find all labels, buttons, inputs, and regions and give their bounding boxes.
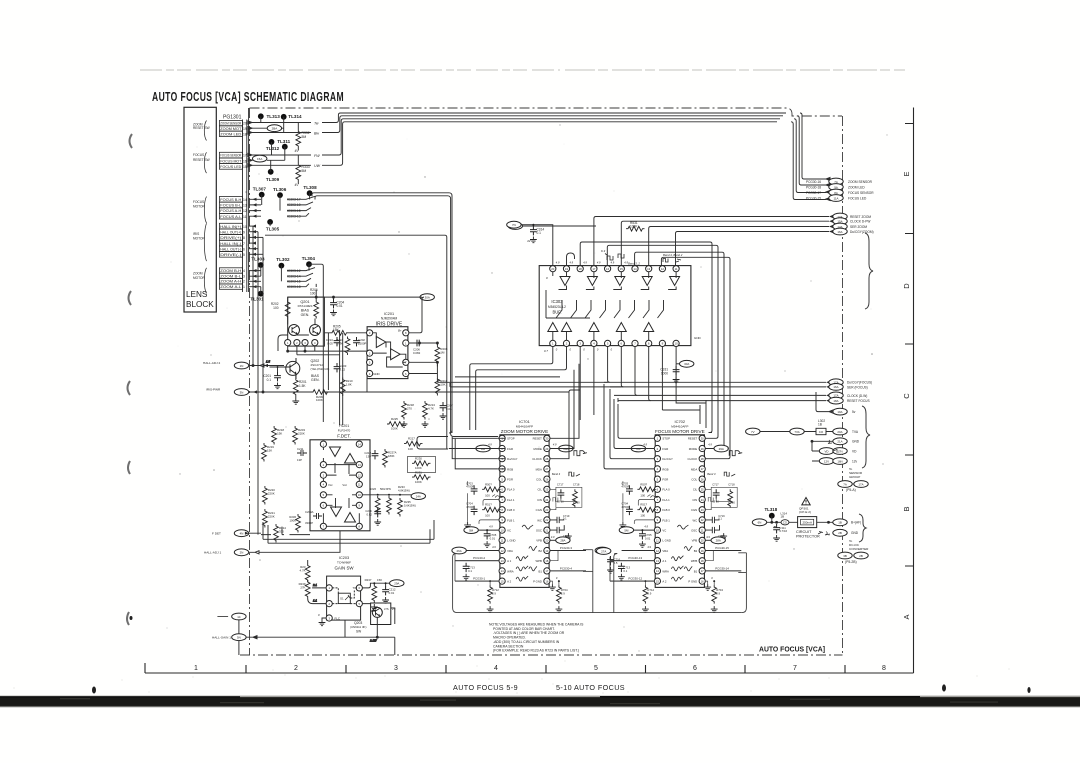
svg-text:19: 19: [565, 267, 569, 271]
svg-text:5M: 5M: [469, 528, 474, 532]
svg-text:Bw: Bw: [314, 131, 319, 135]
svg-text:DTA143ES: DTA143ES: [298, 304, 313, 308]
IC701 pin 17 B1: [538, 568, 550, 574]
svg-text:0.082: 0.082: [413, 351, 421, 355]
connector pin 8A FOCUS SENSOR: [806, 189, 874, 196]
IC303 buffer inverter (down) at 648.7: [642, 277, 652, 286]
IC701 pin 12 VRA: [499, 547, 513, 553]
svg-text:FLB 1: FLB 1: [507, 518, 515, 522]
resistor R214 330: [274, 524, 287, 543]
IC303 pin 6: [618, 340, 624, 346]
wire loop around IC702 bottom: [610, 552, 746, 613]
brace IRIS|MOTOR: [193, 223, 207, 261]
svg-text:26: 26: [701, 477, 704, 481]
wire stubs VD/12V rows: [760, 432, 833, 462]
waveform annotation pin 13 (IC701): [516, 556, 528, 561]
lens signal box HALL IN(-) pin 7: [219, 240, 245, 246]
waveform annotation pin 14 (IC702): [671, 566, 683, 571]
svg-text:1.5K: 1.5K: [299, 384, 306, 388]
IC702 pin 13 A 1: [654, 558, 667, 564]
IC701 pin 8 FLB 0: [499, 507, 515, 513]
lens signal box HALL OUT(-) pin 6: [219, 246, 245, 252]
svg-text:CO: CO: [783, 521, 787, 525]
svg-text:4.9: 4.9: [492, 545, 496, 549]
ground IC702 P GND: [704, 576, 713, 590]
svg-text:IC201: IC201: [384, 312, 394, 316]
svg-text:15: 15: [243, 165, 247, 169]
svg-text:FGR: FGR: [507, 478, 513, 482]
svg-text:ZOOM SENSOR: ZOOM SENSOR: [848, 180, 873, 184]
lens signal box ZOOM B-H pin 4: [219, 268, 245, 273]
node oval 7N SER line: [508, 223, 596, 230]
svg-text:TL306: TL306: [273, 187, 287, 192]
svg-text:AUTO FOCUS 5-9: AUTO FOCUS 5-9: [453, 683, 518, 692]
svg-text:1000: 1000: [661, 371, 668, 375]
svg-text:ZOOM MOT: ZOOM MOT: [220, 127, 241, 131]
svg-text:2.9: 2.9: [716, 591, 720, 595]
svg-text:14: 14: [656, 569, 659, 573]
svg-text:17A: 17A: [858, 482, 863, 486]
wires IC701 control pins up: [449, 364, 580, 469]
svg-text:28: 28: [545, 457, 548, 461]
capacitor C314 0.1: [527, 226, 544, 243]
wire IC701 B1 PCG30-4: [550, 566, 586, 571]
svg-text:WC: WC: [537, 518, 542, 522]
IC702 pin 14 WRA: [654, 568, 669, 574]
IC701 pin 9 FLB 1: [499, 517, 515, 523]
wire ZOOM MOT row: [248, 127, 284, 130]
svg-text:100K: 100K: [316, 398, 323, 402]
svg-text:2B: 2B: [859, 554, 863, 558]
svg-text:M54410AFP: M54410AFP: [671, 425, 688, 429]
svg-text:14: 14: [501, 569, 504, 573]
svg-text:FLB 0: FLB 0: [662, 508, 670, 512]
svg-text:220K: 220K: [268, 491, 275, 495]
IC303 pin 10: [673, 340, 679, 346]
test point TL302: [276, 257, 290, 268]
svg-text:12: 12: [358, 473, 361, 477]
resistor R219 15K: [262, 443, 275, 462]
svg-text:OSC: OSC: [691, 529, 697, 533]
svg-text:ZOOM LED: ZOOM LED: [220, 132, 242, 136]
capacitor C720 3300P (IC702): [705, 525, 727, 541]
FS201 op-amp upper-right: [345, 454, 356, 464]
svg-text:ZOOM SENSOR: ZOOM SENSOR: [220, 122, 242, 126]
connector pin 17A Du/CGY(FOCUS): [829, 379, 872, 386]
wire IC702 WPB stub: [705, 551, 713, 561]
node oval 27A between motor ICs: [597, 548, 611, 555]
svg-text:0.1: 0.1: [537, 231, 542, 235]
svg-text:2N: 2N: [240, 551, 244, 555]
capacitor C207 0.01: [440, 402, 454, 419]
svg-text:30: 30: [701, 437, 704, 441]
node oval 7VA: [790, 428, 804, 435]
connector ovals (P5-2B): [838, 552, 868, 564]
To SENSOR GROUP note: [849, 467, 863, 479]
capacitor C713 0.1 (IC701): [463, 563, 476, 580]
resistor R208 1M: [435, 343, 448, 367]
svg-text:4.9: 4.9: [556, 261, 560, 265]
waveform annotation right pin (IC701) 14: [529, 566, 537, 571]
svg-text:15K: 15K: [333, 328, 340, 332]
svg-text:FOCUS MOT: FOCUS MOT: [220, 159, 241, 163]
svg-text:NJM2904M: NJM2904M: [381, 316, 398, 320]
svg-text:IC303-17: IC303-17: [287, 198, 301, 202]
svg-text:18: 18: [243, 132, 247, 136]
lens signal box FOCUS B-L pin 13: [219, 202, 246, 208]
waveform annotation OSC (IC702): [677, 525, 688, 529]
resistor R707 100 (IC702): [637, 482, 656, 497]
node oval 29A at IC702 MODE: [705, 443, 728, 452]
svg-text:COL: COL: [691, 478, 697, 482]
FS201 pin 13: [356, 462, 362, 468]
svg-text:6.3: 6.3: [601, 249, 606, 253]
svg-text:(FOR EXAMPLE: READ R123 AS R72: (FOR EXAMPLE: READ R123 AS R723 IN PARTS…: [493, 649, 579, 653]
wires IC303 to right vertical bundle: [580, 242, 730, 266]
scan artifact: punch/binding marks left edge: [127, 134, 132, 625]
svg-text:4: 4: [243, 269, 245, 273]
lens signal box DRIVE(+) pin 8: [219, 235, 245, 241]
resistor R704 2.9 (IC701): [556, 580, 569, 612]
svg-text:29A: 29A: [394, 582, 399, 586]
svg-text:25: 25: [701, 488, 704, 492]
IC303 pin 9: [659, 340, 665, 346]
capacitor C705 0.01 (IC702): [639, 530, 652, 547]
IC702 pin 24 CIN: [692, 496, 705, 502]
svg-text:3: 3: [243, 274, 245, 278]
scan noise specks: [14, 124, 1010, 693]
svg-text:4.9: 4.9: [597, 261, 601, 265]
wire hook pin19: [567, 253, 575, 265]
IC701 pin 4 RGB: [499, 466, 513, 472]
svg-text:FGR: FGR: [662, 447, 668, 451]
IC702 pin 10 VC: [654, 527, 666, 533]
IC201 internal wires: [373, 333, 406, 367]
svg-text:16N: 16N: [837, 459, 842, 463]
svg-text:16A: 16A: [837, 230, 842, 234]
svg-text:100: 100: [640, 493, 645, 497]
IC303 pin 20: [550, 266, 556, 272]
resistor R220 220K: [263, 486, 276, 505]
motor driver IC702 M54410AFP FOCUS MOTOR DRIVE: [655, 419, 705, 587]
svg-text:PCG30-12: PCG30-12: [628, 577, 642, 581]
svg-text:0.02: 0.02: [367, 512, 373, 516]
grid frame right border: [905, 108, 914, 674]
svg-text:STOP: STOP: [507, 437, 515, 441]
IC203 switch S1: [332, 586, 357, 603]
svg-text:4.9: 4.9: [624, 261, 628, 265]
test point TL306: [273, 187, 287, 198]
waveform annotation pin 14 (IC701): [516, 566, 528, 571]
test point TL318: [765, 507, 778, 519]
svg-text:4N: 4N: [240, 532, 244, 536]
svg-text:RGB: RGB: [662, 467, 668, 471]
capacitor C713 0.1 (IC702): [618, 563, 631, 580]
svg-text:17: 17: [545, 569, 548, 573]
test point TL307: [253, 186, 267, 197]
svg-text:ZOOM A-H: ZOOM A-H: [220, 280, 242, 284]
capacitor C311 4.7/16: [773, 524, 787, 541]
IC203 pin 3: [326, 615, 332, 621]
lens signal box FOCUS A-L pin 11: [219, 213, 246, 219]
resistor R236 100K: [289, 514, 300, 533]
svg-text:HALL OUT(-): HALL OUT(-): [220, 247, 241, 251]
resistor R225 100K: [387, 417, 406, 431]
wire ZOOM SENSOR row Tw: [248, 113, 830, 181]
IC702 pin 26 COL: [691, 476, 705, 482]
ground left cluster (IC702): [620, 481, 627, 528]
capacitor C717 68 (IC702): [711, 482, 737, 507]
lens signal box ZOOM LED pin 18: [219, 131, 246, 136]
svg-text:TL309: TL309: [266, 177, 280, 182]
resistor R704 2.9 (IC702): [711, 580, 724, 612]
wires left vertical bus extensions: [252, 290, 264, 535]
svg-text:IC303-18: IC303-18: [287, 285, 301, 289]
svg-text:GND: GND: [373, 372, 379, 376]
svg-text:ZOOM: ZOOM: [193, 272, 203, 276]
IC303 pin 16: [605, 266, 611, 272]
Q201 pin 2: [294, 340, 300, 346]
svg-text:FOCUS A-L: FOCUS A-L: [220, 215, 241, 219]
connector pin pair 12V: [819, 458, 857, 465]
svg-text:100: 100: [273, 306, 279, 310]
svg-text:TL313: TL313: [267, 114, 281, 119]
inductor L314: [781, 512, 790, 525]
svg-text:3: 3: [394, 665, 398, 672]
IC203 pin 2: [326, 601, 332, 607]
wire Q201 supply rail: [288, 284, 420, 300]
svg-text:LTS: LTS: [384, 607, 389, 611]
IC303 buffer inverter (down) at 566.5: [560, 277, 570, 286]
fuse box 250mA: [798, 517, 817, 528]
svg-text:Tw: Tw: [314, 121, 319, 125]
svg-text:100K: 100K: [415, 480, 422, 484]
svg-text:3B: 3B: [843, 554, 847, 558]
svg-text:VD: VD: [824, 449, 828, 453]
IC701 pin 27 MDA: [536, 466, 550, 472]
svg-text:Du/CGY: Du/CGY: [662, 457, 673, 461]
svg-text:27K: 27K: [300, 585, 305, 589]
wires IC702 FLA/FLB loop: [634, 489, 658, 524]
svg-text:GROUP: GROUP: [849, 475, 860, 479]
svg-text:63 10: 63 10: [728, 500, 735, 504]
IC303 buffer inverter (up) at 593.9: [589, 323, 599, 332]
svg-text:180K: 180K: [388, 454, 395, 458]
svg-text:15: 15: [656, 579, 659, 583]
svg-text:8: 8: [882, 665, 886, 672]
svg-text:7: 7: [243, 242, 245, 246]
IC201 pin 3: [367, 330, 373, 336]
svg-text:TL305: TL305: [266, 226, 280, 231]
svg-text:12: 12: [243, 209, 247, 213]
svg-text:R51?: R51?: [640, 503, 647, 507]
svg-text:2200P: 2200P: [358, 341, 366, 345]
svg-text:CONVERTER: CONVERTER: [849, 547, 869, 551]
connector pin 18A RESET FOCUS: [829, 397, 870, 404]
svg-text:B2: B2: [694, 549, 698, 553]
svg-text:4.7K: 4.7K: [428, 406, 434, 410]
test point TL308: [303, 185, 317, 196]
waveform annotation right pin (IC701) 12: [529, 546, 537, 551]
svg-text:6: 6: [693, 665, 697, 672]
FS201 pin 2: [320, 462, 326, 468]
IC303 internal interconnect wires: [546, 272, 676, 340]
svg-text:10: 10: [501, 528, 504, 532]
svg-text:220K: 220K: [268, 514, 275, 518]
svg-text:30A: 30A: [425, 295, 430, 299]
svg-text:ZOOM MOTOR DRIVE: ZOOM MOTOR DRIVE: [501, 429, 548, 434]
lens signal box ZOOM SENSOR pin 20: [219, 121, 246, 126]
node oval 15A on FOCUS MOT row: [253, 155, 267, 162]
svg-text:30A: 30A: [684, 362, 689, 366]
svg-text:B1: B1: [694, 569, 698, 573]
wires C-group left extensions: [604, 382, 651, 400]
svg-text:100: 100: [485, 493, 490, 497]
wires CIL/CGN loop (IC701): [550, 489, 575, 509]
svg-text:A 2: A 2: [507, 580, 511, 584]
svg-text:(P5-2B): (P5-2B): [845, 560, 857, 564]
svg-text:2.9: 2.9: [561, 591, 565, 595]
connector pin 14A SER ZOOM: [833, 223, 868, 230]
svg-text:100: 100: [485, 514, 490, 518]
svg-text:B2: B2: [538, 549, 542, 553]
svg-text:2.1: 2.1: [312, 583, 317, 587]
wires RESET/CLOCK/SER/DuCGY ZOOM: [594, 215, 833, 266]
svg-text:20: 20: [551, 267, 555, 271]
IC701 pin 2 FGR: [499, 445, 513, 451]
svg-text:MDA: MDA: [691, 467, 697, 471]
svg-text:5M: 5M: [302, 169, 307, 173]
svg-text:10K: 10K: [408, 447, 413, 451]
svg-text:1N: 1N: [240, 364, 244, 368]
wire loop around IC701 bottom: [453, 550, 742, 613]
svg-text:17: 17: [592, 267, 596, 271]
svg-text:26A: 26A: [457, 549, 462, 553]
svg-text:B1: B1: [538, 569, 542, 573]
IC303 buffer inverter (down) at 676.1: [670, 277, 680, 286]
IC702 pin 8 FLB 0: [654, 507, 670, 513]
IC702 pin 2 FGR: [654, 445, 668, 451]
svg-text:CLOCK: CLOCK: [532, 457, 542, 461]
lens signal box HALL IN(+) pin 10: [219, 223, 246, 229]
svg-text:3N: 3N: [240, 390, 244, 394]
resistor R712 2.9 (IC701): [487, 580, 500, 612]
svg-text:VD: VD: [852, 449, 857, 453]
svg-text:2B: 2B: [838, 531, 842, 535]
svg-text:16: 16: [701, 579, 704, 583]
svg-text:17: 17: [701, 569, 704, 573]
node oval 29A at IC701 MODE: [550, 443, 573, 452]
wire IC702 B2 PCG30-15: [705, 546, 741, 551]
wires IC303 bottom fan-out: [470, 347, 830, 431]
svg-text:4.9: 4.9: [706, 535, 710, 539]
connector pin 11A FOCUS LED: [806, 195, 867, 202]
capacitor C717 68 (IC701): [556, 482, 582, 507]
capacitor C704 4700P (IC701): [466, 502, 477, 515]
svg-text:IC702: IC702: [674, 419, 685, 424]
node oval 28A at IC702 VPB: [705, 535, 725, 544]
svg-text:C717: C717: [712, 482, 719, 486]
svg-text:FOCUS B-L: FOCUS B-L: [220, 204, 241, 208]
IC701 pin 16 P GND: [533, 578, 550, 584]
wire IC701 A1 PCG30-2: [455, 556, 499, 561]
resistor R218 270: [401, 401, 415, 427]
wires ZOOM B/A rows to IC303-x labels: [249, 268, 315, 289]
svg-text:18: 18: [579, 267, 583, 271]
IC303 buffer inverter (up) at 566.5: [562, 323, 572, 332]
IC701 pin 1 STOP: [499, 435, 515, 441]
resistor R204 270K: [336, 337, 350, 356]
wires IC203 left: [308, 560, 326, 604]
svg-text:4.8K(3W): 4.8K(3W): [398, 488, 410, 492]
FS201 pin 12: [356, 472, 362, 478]
warning triangle: [802, 498, 810, 505]
svg-text:(P5-A): (P5-A): [846, 488, 856, 492]
svg-text:PCG30-17: PCG30-17: [806, 191, 821, 195]
svg-text:29: 29: [545, 447, 548, 451]
svg-text:20A: 20A: [837, 430, 842, 434]
svg-text:27A: 27A: [601, 549, 606, 553]
svg-text:0.01: 0.01: [645, 536, 651, 540]
svg-text:FLA 0: FLA 0: [662, 488, 670, 492]
svg-text:MOTOR: MOTOR: [193, 276, 206, 280]
svg-text:FOCUS: FOCUS: [193, 200, 204, 204]
svg-text:23: 23: [701, 508, 704, 512]
ground left cluster (IC701): [464, 481, 471, 528]
svg-text:8: 8: [243, 236, 245, 240]
svg-text:18: 18: [545, 559, 548, 563]
svg-text:WPB: WPB: [536, 559, 543, 563]
svg-text:5-10 AUTO FOCUS: 5-10 AUTO FOCUS: [556, 683, 625, 692]
svg-text:4.9: 4.9: [611, 261, 615, 265]
svg-text:IC203: IC203: [339, 556, 349, 560]
IC702 pin 11 L GND: [654, 537, 671, 543]
svg-text:10: 10: [243, 225, 247, 229]
resistor R332 5M: [295, 123, 310, 154]
capacitor C704 4700P (IC702): [621, 502, 632, 515]
svg-text:TL308: TL308: [303, 185, 317, 190]
svg-text:MOTOR: MOTOR: [193, 205, 206, 209]
svg-text:R50?: R50?: [640, 482, 647, 486]
svg-text:Band 3: Band 3: [707, 472, 716, 476]
svg-text:5M: 5M: [624, 528, 629, 532]
svg-text:22: 22: [701, 518, 704, 522]
IC303 pin 15: [618, 266, 624, 272]
wires HALL/DRIVE rows: [249, 225, 263, 301]
node oval 26A at IC701 VRA: [452, 545, 499, 554]
svg-text:C717: C717: [557, 482, 564, 486]
svg-text:R226: R226: [369, 487, 376, 491]
wire bundle TL308 to IC701 left pins: [310, 193, 499, 449]
svg-text:CO: CO: [819, 430, 824, 434]
svg-text:MODE: MODE: [533, 447, 542, 451]
svg-text:12: 12: [501, 549, 504, 553]
LENS BLOCK box: [184, 107, 216, 312]
svg-text:AUTO FOCUS [VCA]: AUTO FOCUS [VCA]: [759, 645, 825, 654]
resistor R718 (IC702): [728, 482, 736, 508]
svg-text:P GND: P GND: [688, 580, 697, 584]
harness brace right D-C: [865, 233, 873, 309]
svg-text:A 1: A 1: [662, 559, 666, 563]
IC203 pin3 FLC: [318, 613, 340, 626]
svg-text:13P: 13P: [297, 458, 302, 462]
svg-text:0.1: 0.1: [718, 517, 722, 521]
FS201 pin 4: [320, 481, 326, 487]
svg-text:GEN.: GEN.: [301, 313, 310, 317]
svg-text:F DET: F DET: [212, 532, 221, 536]
connector pin 7A ZOOM SENSOR: [806, 178, 873, 185]
svg-text:ZOOM B-H: ZOOM B-H: [220, 269, 242, 273]
